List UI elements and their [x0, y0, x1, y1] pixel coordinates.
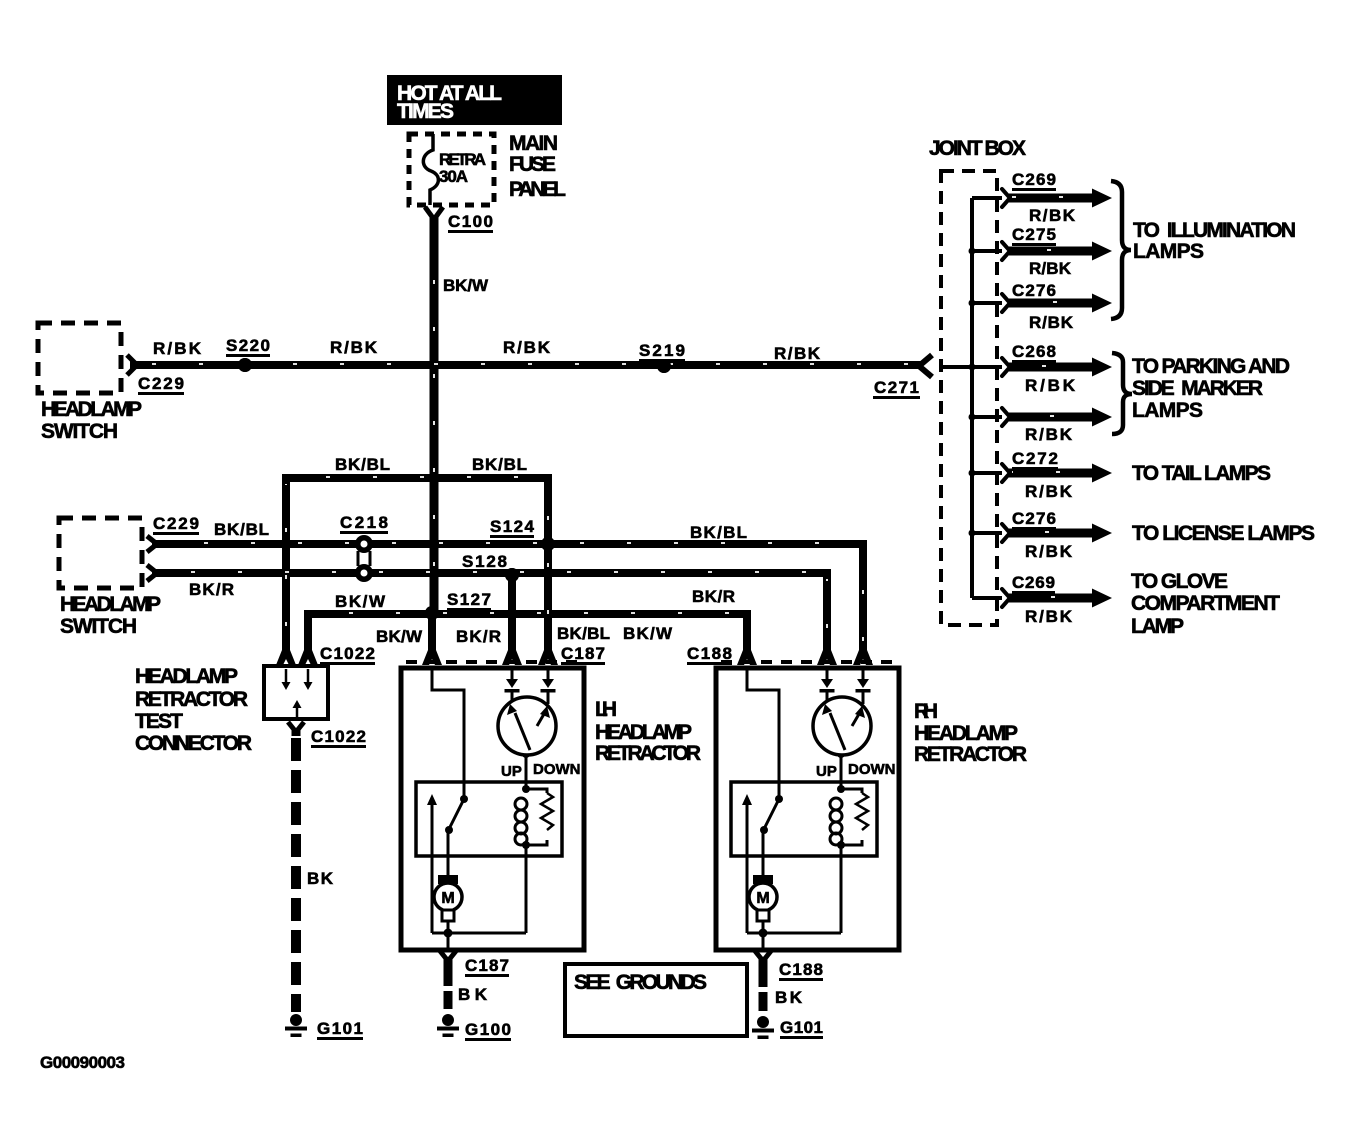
svg-text:HEADLAMP: HEADLAMP: [60, 593, 161, 616]
svg-text:R/BK: R/BK: [1025, 607, 1073, 626]
svg-text:TO GLOVE: TO GLOVE: [1131, 570, 1228, 593]
svg-text:C271: C271: [874, 378, 919, 397]
svg-text:BK/W: BK/W: [443, 276, 489, 295]
svg-text:HEADLAMP: HEADLAMP: [41, 398, 142, 421]
svg-text:TIMES: TIMES: [397, 100, 454, 123]
svg-text:S128: S128: [462, 552, 507, 571]
svg-text:R/BK: R/BK: [503, 338, 551, 357]
svg-text:C269: C269: [1012, 573, 1055, 592]
svg-text:R/BK: R/BK: [1025, 542, 1073, 561]
svg-text:JOINT BOX: JOINT BOX: [929, 137, 1026, 160]
svg-text:TO PARKING AND: TO PARKING AND: [1132, 355, 1290, 378]
svg-text:C229: C229: [138, 374, 184, 393]
svg-text:LAMP: LAMP: [1131, 615, 1184, 638]
svg-text:BK/R: BK/R: [456, 627, 501, 646]
svg-text:BK/R: BK/R: [189, 580, 234, 599]
svg-text:TEST: TEST: [135, 710, 183, 733]
svg-text:FUSE: FUSE: [509, 153, 556, 176]
svg-text:C276: C276: [1012, 509, 1056, 528]
svg-text:COMPARTMENT: COMPARTMENT: [1131, 592, 1280, 615]
svg-text:BK/BL: BK/BL: [214, 520, 269, 539]
svg-text:C275: C275: [1012, 225, 1056, 244]
svg-text:C1022: C1022: [311, 727, 366, 746]
svg-text:CONNECTOR: CONNECTOR: [135, 732, 252, 755]
svg-text:BK/R: BK/R: [692, 587, 735, 606]
svg-text:HEADLAMP: HEADLAMP: [914, 722, 1018, 745]
svg-text:RETRACTOR: RETRACTOR: [135, 688, 248, 711]
svg-text:SWITCH: SWITCH: [41, 420, 118, 443]
svg-text:C188: C188: [779, 960, 823, 979]
svg-text:R/BK: R/BK: [774, 344, 821, 363]
svg-text:RETRACTOR: RETRACTOR: [914, 743, 1027, 766]
svg-text:BK/W: BK/W: [335, 592, 386, 611]
svg-text:R/BK: R/BK: [153, 339, 202, 358]
svg-text:B K: B K: [775, 988, 803, 1007]
svg-text:LH: LH: [595, 698, 617, 721]
svg-text:BK/BL: BK/BL: [557, 624, 610, 643]
svg-text:30A: 30A: [439, 167, 468, 186]
svg-text:BK/BL: BK/BL: [690, 523, 747, 542]
svg-text:C276: C276: [1012, 281, 1056, 300]
svg-text:SEE GROUNDS: SEE GROUNDS: [574, 971, 707, 994]
svg-text:C229: C229: [153, 514, 199, 533]
svg-text:R/BK: R/BK: [1029, 313, 1074, 332]
svg-text:R/BK: R/BK: [1029, 259, 1072, 278]
svg-text:TO TAIL LAMPS: TO TAIL LAMPS: [1132, 462, 1271, 485]
svg-text:S220: S220: [226, 336, 270, 355]
svg-text:BK/BL: BK/BL: [335, 455, 390, 474]
svg-text:C187: C187: [465, 956, 509, 975]
svg-text:PANEL: PANEL: [509, 178, 566, 201]
svg-text:R/BK: R/BK: [1029, 206, 1076, 225]
svg-text:R/BK: R/BK: [330, 338, 378, 357]
svg-text:C218: C218: [340, 513, 388, 532]
svg-text:G100: G100: [465, 1020, 511, 1039]
svg-text:MAIN: MAIN: [509, 132, 558, 155]
svg-text:BK/W: BK/W: [623, 624, 673, 643]
svg-text:HEADLAMP: HEADLAMP: [595, 721, 692, 744]
svg-text:B K: B K: [458, 985, 488, 1004]
svg-text:SIDE MARKER: SIDE MARKER: [1132, 377, 1263, 400]
svg-text:BK/BL: BK/BL: [472, 455, 527, 474]
svg-text:LAMPS: LAMPS: [1133, 240, 1204, 263]
svg-text:C100: C100: [448, 212, 493, 231]
svg-text:G101: G101: [780, 1018, 823, 1037]
svg-text:BK/W: BK/W: [376, 627, 423, 646]
svg-text:RH: RH: [914, 700, 938, 723]
svg-text:S127: S127: [447, 590, 491, 609]
svg-text:R/BK: R/BK: [1025, 376, 1076, 395]
svg-text:TO ILLUMINATION: TO ILLUMINATION: [1133, 219, 1296, 242]
svg-text:C269: C269: [1012, 170, 1056, 189]
svg-text:R/BK: R/BK: [1025, 482, 1073, 501]
svg-text:C1022: C1022: [320, 644, 375, 663]
svg-text:LAMPS: LAMPS: [1132, 399, 1203, 422]
svg-text:RETRACTOR: RETRACTOR: [595, 742, 701, 765]
svg-text:C268: C268: [1012, 342, 1056, 361]
svg-text:G00090003: G00090003: [40, 1053, 125, 1072]
svg-text:R/BK: R/BK: [1025, 425, 1073, 444]
svg-text:C272: C272: [1012, 449, 1058, 468]
svg-text:B K: B K: [307, 869, 334, 888]
svg-text:HEADLAMP: HEADLAMP: [135, 665, 238, 688]
svg-text:G101: G101: [317, 1019, 363, 1038]
svg-text:SWITCH: SWITCH: [60, 615, 137, 638]
svg-text:TO LICENSE LAMPS: TO LICENSE LAMPS: [1132, 522, 1315, 545]
